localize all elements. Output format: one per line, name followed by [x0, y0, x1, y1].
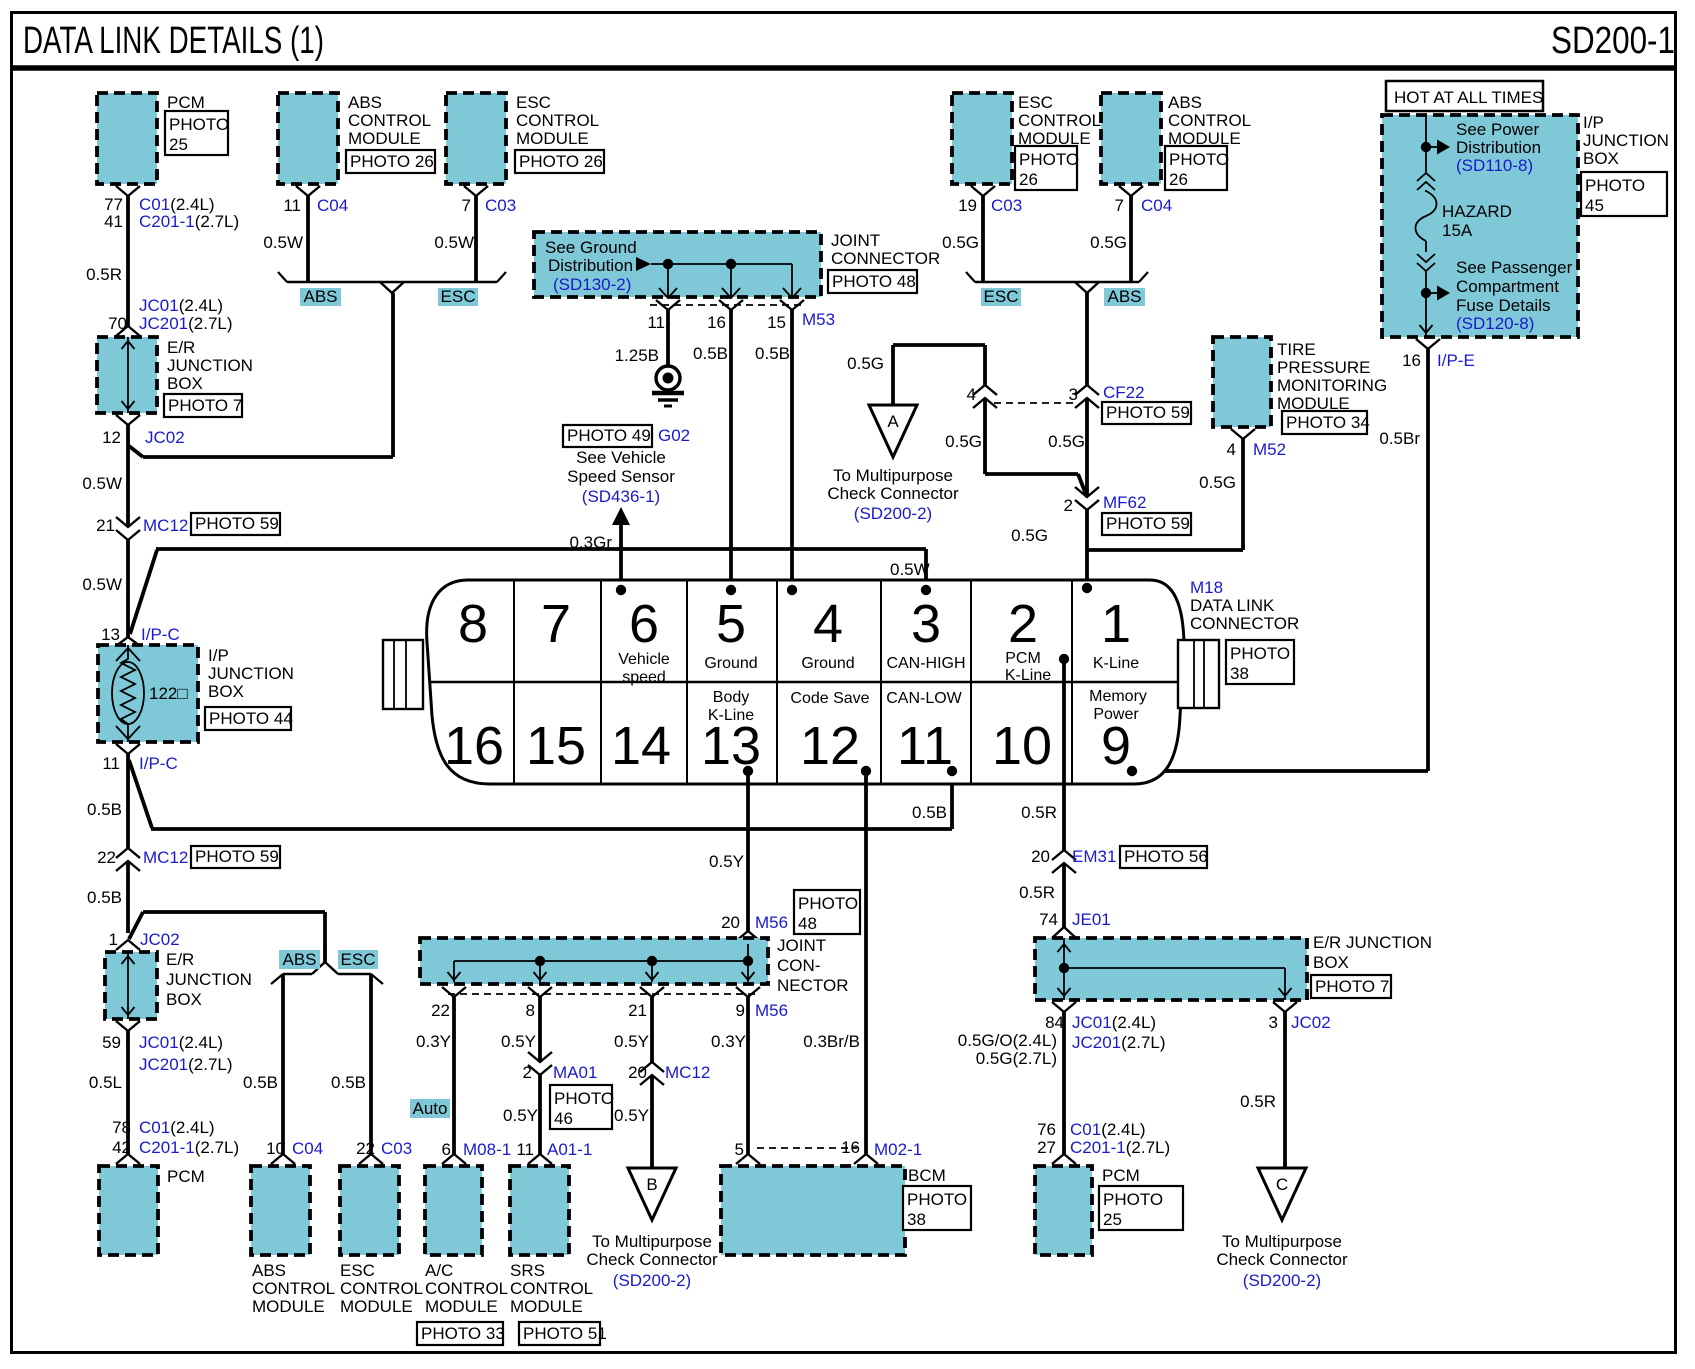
svg-text:76: 76: [1037, 1120, 1056, 1139]
svg-text:45: 45: [1585, 196, 1604, 215]
svg-text:To Multipurpose: To Multipurpose: [1222, 1232, 1342, 1251]
svg-text:(SD110-8): (SD110-8): [1456, 156, 1533, 175]
svg-text:PHOTO 56: PHOTO 56: [1124, 847, 1208, 866]
svg-text:JC02: JC02: [140, 930, 180, 949]
svg-text:78: 78: [112, 1118, 131, 1137]
module SRS control module: [510, 1166, 569, 1255]
svg-text:C201-1(2.7L): C201-1(2.7L): [139, 212, 239, 231]
svg-text:Code Save: Code Save: [790, 690, 869, 707]
svg-text:Distribution: Distribution: [1456, 138, 1541, 157]
wire 0.5Y DLC pin 13 to M56: [746, 771, 750, 931]
pin 84 JC01/JC201 connector at E/R box exit: [1052, 1002, 1076, 1012]
svg-text:To Multipurpose: To Multipurpose: [833, 466, 953, 485]
wire 0.5G ABS right: [1129, 196, 1133, 282]
wire 0.3Y M56 to A/C module: [452, 997, 456, 1154]
svg-text:PHOTO 59: PHOTO 59: [195, 847, 279, 866]
svg-text:C03: C03: [485, 196, 516, 215]
data link connector M18 outline: [427, 580, 1184, 784]
pin 3 JC02 connector at E/R box exit right: [1273, 1002, 1297, 1012]
svg-text:Check Connector: Check Connector: [1216, 1250, 1348, 1269]
svg-text:22: 22: [356, 1139, 375, 1158]
wire 0.3Gr DLC pin 6 to speed sensor: [619, 524, 623, 588]
svg-text:PHOTO: PHOTO: [1019, 150, 1079, 169]
svg-text:CONTROL: CONTROL: [1168, 111, 1251, 130]
svg-text:0.5B: 0.5B: [331, 1073, 366, 1092]
svg-text:C04: C04: [317, 196, 348, 215]
pin 11 A01-1 connector at SRS module: [528, 1154, 552, 1164]
module ESC control module top-right: [952, 93, 1012, 184]
svg-text:2: 2: [1064, 496, 1073, 515]
svg-text:(SD200-2): (SD200-2): [854, 504, 932, 523]
DLC left tab: [383, 640, 423, 709]
pin 22 C03 connector at lower ESC module: [359, 1154, 383, 1164]
DLC pin 2 node: [1059, 654, 1069, 664]
junction dot M56 bus 3: [743, 956, 753, 966]
DLC pin 1 node: [1082, 583, 1092, 593]
wire 0.5G CF22 pin 3 to MF62: [1085, 398, 1089, 497]
wire 0.3Br/B DLC pin 12 to BCM pin 16: [864, 771, 868, 1154]
ground symbol G02: [656, 366, 680, 390]
svg-text:26: 26: [1019, 170, 1038, 189]
wire 0.5Y M56 to MA01: [538, 997, 542, 1062]
junction dot M56 bus 1: [535, 956, 545, 966]
svg-text:Speed Sensor: Speed Sensor: [567, 467, 675, 486]
svg-text:0.3Br/B: 0.3Br/B: [803, 1032, 860, 1051]
svg-text:MODULE: MODULE: [510, 1297, 583, 1316]
svg-text:JUNCTION: JUNCTION: [1583, 131, 1669, 150]
svg-text:0.5W: 0.5W: [890, 560, 930, 579]
svg-text:ESC: ESC: [1018, 93, 1053, 112]
svg-text:0.5G: 0.5G: [945, 432, 982, 451]
svg-text:M08-1: M08-1: [463, 1140, 511, 1159]
svg-text:C03: C03: [381, 1139, 412, 1158]
svg-text:2: 2: [1008, 594, 1038, 654]
svg-text:10: 10: [992, 716, 1052, 776]
svg-text:CONTROL: CONTROL: [340, 1279, 423, 1298]
I/P junction box with resistor: [98, 645, 198, 742]
svg-text:Auto: Auto: [413, 1099, 448, 1118]
svg-text:JUNCTION: JUNCTION: [167, 356, 253, 375]
node ABS label lower: [279, 950, 320, 969]
svg-text:26: 26: [1169, 170, 1188, 189]
svg-text:0.5G: 0.5G: [942, 233, 979, 252]
svg-text:speed: speed: [622, 669, 666, 686]
in-line connector MF62 pin 2: [1075, 487, 1099, 497]
wire 0.5G/O to PCM: [1062, 1012, 1066, 1154]
svg-text:PCM: PCM: [167, 1167, 205, 1186]
svg-text:7: 7: [1115, 196, 1124, 215]
svg-text:HOT AT ALL TIMES: HOT AT ALL TIMES: [1394, 88, 1543, 107]
M56 bus drops: [453, 961, 455, 982]
svg-text:CAN-HIGH: CAN-HIGH: [886, 655, 965, 672]
wire 0.5W ABS to bus: [306, 196, 310, 282]
svg-text:0.5W: 0.5W: [82, 474, 122, 493]
DLC pin 11 node: [947, 766, 957, 776]
node ABS label right: [1104, 288, 1145, 306]
svg-text:Check Connector: Check Connector: [586, 1250, 718, 1269]
svg-text:38: 38: [1230, 664, 1249, 683]
svg-text:PHOTO: PHOTO: [1169, 150, 1229, 169]
svg-text:ESC: ESC: [984, 287, 1019, 306]
wire 0.5B to lower ABS module: [281, 974, 285, 1154]
svg-text:CONNECTOR: CONNECTOR: [1190, 614, 1299, 633]
pin 6 M08-1 connector at A/C module: [442, 1154, 466, 1164]
wire 0.5Br I/P-E to DLC pin 9: [1426, 349, 1430, 771]
svg-text:Fuse Details: Fuse Details: [1456, 296, 1550, 315]
svg-text:MODULE: MODULE: [425, 1297, 498, 1316]
wire branch CAN-LOW to DLC pin 11: [129, 760, 152, 828]
svg-text:27: 27: [1037, 1138, 1056, 1157]
wire 0.5G M52 to K-line: [1241, 439, 1245, 550]
svg-text:EM31: EM31: [1072, 847, 1116, 866]
svg-text:ABS: ABS: [282, 950, 316, 969]
svg-text:JC01(2.4L): JC01(2.4L): [139, 296, 223, 315]
svg-text:0.5Br: 0.5Br: [1379, 429, 1420, 448]
svg-text:B: B: [646, 1175, 657, 1194]
junction dot inside E/R box: [1059, 963, 1069, 973]
in-line connector MC12 pin 22: [116, 848, 140, 858]
svg-text:Power: Power: [1093, 706, 1139, 723]
pin 16 I/P-E connector at I/P junction box exit: [1416, 339, 1440, 349]
pin 16 M02-1 connector at BCM: [854, 1154, 878, 1164]
node ESC label right: [981, 288, 1021, 306]
svg-text:PHOTO 59: PHOTO 59: [195, 514, 279, 533]
svg-text:I/P-E: I/P-E: [1437, 351, 1475, 370]
svg-text:I/P-C: I/P-C: [141, 625, 180, 644]
svg-text:0.5B: 0.5B: [912, 803, 947, 822]
joint connector ground distribution box: [534, 232, 821, 297]
svg-text:C04: C04: [1141, 196, 1172, 215]
E/R junction box bottom-right: [1035, 938, 1307, 1000]
svg-text:PHOTO 59: PHOTO 59: [1106, 403, 1190, 422]
module PCM bottom-left: [99, 1166, 158, 1255]
svg-text:14: 14: [611, 716, 671, 776]
DLC grid lines: [513, 580, 515, 784]
svg-text:PHOTO 26: PHOTO 26: [350, 152, 434, 171]
wire branch CAN-HIGH to DLC pin 3: [130, 550, 157, 634]
svg-text:JE01: JE01: [1072, 910, 1111, 929]
pin 74 JE01 connector at E/R junction box: [1052, 927, 1076, 938]
module ESC control module top-left: [446, 93, 506, 184]
svg-text:C03: C03: [991, 196, 1022, 215]
svg-text:0.5L: 0.5L: [89, 1073, 122, 1092]
bus wire joining right ESC and ABS: [975, 281, 1139, 283]
svg-text:0.5Y: 0.5Y: [614, 1032, 649, 1051]
svg-text:Memory: Memory: [1089, 688, 1147, 705]
svg-text:PHOTO: PHOTO: [1103, 1190, 1163, 1209]
svg-text:M52: M52: [1253, 440, 1286, 459]
pin 11 M53: [656, 300, 680, 310]
DLC pin 5 node: [726, 585, 736, 595]
svg-text:MODULE: MODULE: [252, 1297, 325, 1316]
svg-text:22: 22: [431, 1001, 450, 1020]
svg-text:G02: G02: [658, 426, 690, 445]
DLC pin 9 node: [1127, 766, 1137, 776]
svg-text:ABS: ABS: [252, 1261, 286, 1280]
svg-text:(SD436-1): (SD436-1): [582, 487, 660, 506]
svg-text:0.5Y: 0.5Y: [503, 1106, 538, 1125]
svg-text:0.3Y: 0.3Y: [416, 1032, 451, 1051]
off-page connector triangle C: [1258, 1168, 1306, 1220]
svg-text:JUNCTION: JUNCTION: [166, 970, 252, 989]
off-page connector triangle B: [628, 1168, 676, 1220]
svg-text:DATA LINK: DATA LINK: [1190, 596, 1275, 615]
svg-text:84: 84: [1045, 1013, 1064, 1032]
svg-text:JC01(2.4L): JC01(2.4L): [139, 1033, 223, 1052]
svg-text:C: C: [1276, 1175, 1288, 1194]
pin 10 C04 connector at lower ABS module: [271, 1154, 295, 1164]
DLC right tab: [1178, 640, 1219, 708]
svg-text:PCM: PCM: [1005, 650, 1041, 667]
wire 0.5W MC12 to I/P-C: [126, 540, 130, 637]
svg-text:Ground: Ground: [801, 655, 854, 672]
svg-text:ESC: ESC: [516, 93, 551, 112]
svg-text:ABS: ABS: [303, 287, 337, 306]
module PCM bottom-right: [1035, 1166, 1092, 1255]
svg-text:2: 2: [523, 1063, 532, 1082]
junction split to ABS and ESC wires: [312, 962, 338, 974]
svg-text:(SD200-2): (SD200-2): [1243, 1271, 1321, 1290]
bus wire joining ABS and ESC: [287, 281, 497, 283]
svg-text:4: 4: [1227, 440, 1236, 459]
svg-text:M18: M18: [1190, 578, 1223, 597]
pin 7 C03 connector at ESC module: [464, 186, 488, 196]
svg-text:Vehicle: Vehicle: [618, 651, 670, 668]
pin 77/41 C01/C201-1 connector at PCM: [116, 186, 140, 196]
svg-text:CONTROL: CONTROL: [348, 111, 431, 130]
svg-text:70: 70: [108, 314, 127, 333]
wire 0.5Y MC12 to triangle B: [650, 1075, 654, 1168]
joint connector box bottom: [420, 938, 768, 984]
wire 0.5B MC12 to JC02: [126, 861, 130, 933]
svg-text:42: 42: [112, 1138, 131, 1157]
svg-text:PHOTO: PHOTO: [907, 1190, 967, 1209]
title separator bar: [11, 65, 1676, 71]
svg-text:0.5R: 0.5R: [1019, 883, 1055, 902]
svg-text:15: 15: [526, 716, 586, 776]
svg-text:PHOTO: PHOTO: [1585, 176, 1645, 195]
pin 59 JC01/JC201 connector at lower E/R junction box exit: [116, 1021, 140, 1031]
svg-text:NECTOR: NECTOR: [777, 976, 848, 995]
wire 0.5W ESC to bus: [474, 196, 478, 282]
svg-text:(SD130-2): (SD130-2): [553, 275, 631, 294]
svg-text:CON-: CON-: [777, 956, 820, 975]
svg-text:MODULE: MODULE: [340, 1297, 413, 1316]
wire 0.5R PCM to E/R junction box: [126, 196, 130, 326]
svg-text:0.5B: 0.5B: [87, 800, 122, 819]
svg-text:See Power: See Power: [1456, 120, 1539, 139]
pin 21 M56: [640, 987, 664, 997]
wire branch JC02 to ABS/ESC merge: [129, 446, 143, 457]
svg-text:JC201(2.7L): JC201(2.7L): [139, 314, 233, 333]
connector M56 boundary dashed line: [448, 993, 755, 995]
arrow into ground bus: [636, 257, 651, 271]
module A/C control module: [425, 1166, 482, 1255]
junction dot ground bus 1: [663, 259, 673, 269]
svg-text:0.5R: 0.5R: [1240, 1092, 1276, 1111]
svg-text:0.5G/O(2.4L): 0.5G/O(2.4L): [958, 1031, 1057, 1050]
svg-text:ESC: ESC: [441, 287, 476, 306]
svg-text:9: 9: [736, 1001, 745, 1020]
svg-text:BOX: BOX: [1583, 149, 1619, 168]
svg-text:1: 1: [1101, 594, 1131, 654]
svg-text:M56: M56: [755, 1001, 788, 1020]
svg-text:(SD120-8): (SD120-8): [1456, 314, 1534, 333]
svg-text:11: 11: [102, 754, 120, 773]
svg-text:25: 25: [1103, 1210, 1122, 1229]
in-line connector M56 pin 20: [736, 931, 760, 941]
label HOT AT ALL TIMES: [1386, 81, 1543, 111]
svg-text:CONTROL: CONTROL: [425, 1279, 508, 1298]
in-line connector MC12 pin 21: [116, 517, 140, 527]
svg-text:20: 20: [628, 1063, 647, 1082]
svg-text:PHOTO 44: PHOTO 44: [209, 709, 293, 728]
svg-text:CONTROL: CONTROL: [510, 1279, 593, 1298]
svg-text:0.5R: 0.5R: [86, 265, 122, 284]
svg-text:PHOTO 59: PHOTO 59: [1106, 514, 1190, 533]
in-line connector CF22 pin 3: [1075, 385, 1099, 395]
svg-text:0.5B: 0.5B: [693, 344, 728, 363]
svg-text:41: 41: [104, 212, 123, 231]
svg-text:Ground: Ground: [704, 655, 757, 672]
svg-text:PHOTO 26: PHOTO 26: [519, 152, 603, 171]
module ESC control module bottom: [340, 1166, 399, 1255]
wire 0.5B I/P-C to MC12: [126, 754, 130, 848]
svg-text:7: 7: [462, 196, 471, 215]
svg-text:0.5B: 0.5B: [243, 1073, 278, 1092]
svg-text:I/P: I/P: [208, 646, 229, 665]
in-line connector MC12 pin 20: [640, 1062, 664, 1072]
wire 0.5G CF22 pin 4 to MF62: [983, 398, 987, 474]
pin 11 C04 connector at ABS module: [296, 186, 320, 196]
arrow to vehicle speed sensor: [612, 507, 630, 525]
DLC pin 13 node: [743, 766, 753, 776]
svg-text:12: 12: [800, 716, 860, 776]
pin 78/42 C01/C201-1 connector at lower PCM: [116, 1154, 140, 1164]
svg-text:ABS: ABS: [1168, 93, 1202, 112]
resistor 122 ohm inside I/P junction box: [112, 662, 144, 724]
svg-text:PHOTO: PHOTO: [798, 894, 858, 913]
svg-text:CONTROL: CONTROL: [252, 1279, 335, 1298]
svg-text:11: 11: [897, 716, 953, 776]
svg-text:SD200-1: SD200-1: [1551, 20, 1675, 62]
svg-text:Body: Body: [713, 689, 749, 706]
in-line connector CF22 pin 4: [973, 385, 997, 395]
DLC pin 4 node: [787, 585, 797, 595]
svg-text:0.5G: 0.5G: [1090, 233, 1127, 252]
svg-text:PHOTO 7: PHOTO 7: [168, 396, 242, 415]
svg-text:See Vehicle: See Vehicle: [576, 448, 666, 467]
svg-text:E/R JUNCTION: E/R JUNCTION: [1313, 933, 1432, 952]
svg-text:PHOTO 48: PHOTO 48: [832, 272, 916, 291]
svg-text:JC201(2.7L): JC201(2.7L): [139, 1055, 233, 1074]
svg-text:CF22: CF22: [1103, 383, 1145, 402]
pin 5 connector at BCM: [736, 1154, 760, 1164]
pin 7 C04 connector at ABS module right: [1119, 186, 1143, 196]
svg-text:3: 3: [911, 594, 941, 654]
internal feed wire: [1425, 115, 1427, 172]
svg-text:0.5Y: 0.5Y: [501, 1032, 536, 1051]
wire 0.5R JC02 to triangle C: [1283, 1012, 1287, 1168]
svg-text:HAZARD: HAZARD: [1442, 202, 1512, 221]
DLC pin 12 node: [861, 766, 871, 776]
svg-text:MONITORING: MONITORING: [1277, 376, 1387, 395]
svg-text:20: 20: [721, 913, 740, 932]
svg-text:74: 74: [1039, 910, 1058, 929]
wire 0.5G MF62 to DLC pin 1: [1085, 510, 1089, 588]
svg-text:See Passenger: See Passenger: [1456, 258, 1573, 277]
svg-text:K-Line: K-Line: [1005, 667, 1051, 684]
svg-text:38: 38: [907, 1210, 926, 1229]
wire 0.5Y M56 to MC12: [650, 997, 654, 1062]
svg-text:13: 13: [101, 625, 120, 644]
DLC pin 3 node: [921, 585, 931, 595]
svg-text:PHOTO: PHOTO: [1230, 644, 1290, 663]
svg-text:BOX: BOX: [1313, 953, 1349, 972]
svg-text:0.5G(2.7L): 0.5G(2.7L): [976, 1049, 1057, 1068]
svg-text:19: 19: [958, 196, 977, 215]
wire merge to CF22: [1085, 293, 1089, 385]
svg-text:A: A: [887, 412, 899, 431]
svg-text:MODULE: MODULE: [516, 129, 589, 148]
node Auto label: [410, 1099, 450, 1118]
svg-text:46: 46: [554, 1109, 573, 1128]
pin 19 C03 connector at ESC module right: [971, 186, 995, 196]
svg-text:ESC: ESC: [341, 950, 376, 969]
svg-text:A/C: A/C: [425, 1261, 453, 1280]
I/P junction box top-right: [1382, 115, 1578, 337]
module PCM top-left: [97, 93, 157, 184]
svg-text:0.3Gr: 0.3Gr: [569, 533, 612, 552]
svg-text:11: 11: [283, 196, 301, 215]
svg-text:C01(2.4L): C01(2.4L): [139, 1118, 215, 1137]
svg-text:21: 21: [628, 1001, 647, 1020]
svg-text:11: 11: [516, 1140, 534, 1159]
connector M02-1 boundary dashed line: [757, 1147, 857, 1149]
pin 4 M52 connector at TPMS: [1231, 429, 1255, 439]
svg-text:8: 8: [526, 1001, 535, 1020]
svg-text:CONTROL: CONTROL: [1018, 111, 1101, 130]
wire 0.5Y MA01 to SRS module: [538, 1075, 542, 1154]
svg-text:0.5W: 0.5W: [82, 575, 122, 594]
svg-text:15: 15: [767, 313, 786, 332]
svg-text:M53: M53: [802, 310, 835, 329]
off-page connector triangle A: [869, 405, 917, 457]
svg-text:0.5B: 0.5B: [755, 344, 790, 363]
svg-text:MC12: MC12: [665, 1063, 710, 1082]
svg-text:0.5W: 0.5W: [263, 233, 303, 252]
svg-text:DATA LINK DETAILS (1): DATA LINK DETAILS (1): [23, 20, 324, 62]
DLC pin 6 node: [616, 585, 626, 595]
module ABS control module top-left: [278, 93, 338, 184]
svg-text:PHOTO 33: PHOTO 33: [421, 1324, 505, 1343]
svg-text:E/R: E/R: [167, 338, 195, 357]
pin 16 M53: [719, 300, 743, 310]
svg-text:0.5W: 0.5W: [434, 233, 474, 252]
svg-text:5: 5: [735, 1140, 744, 1159]
svg-text:JC02: JC02: [145, 428, 185, 447]
svg-text:22: 22: [97, 848, 116, 867]
svg-text:122□: 122□: [149, 684, 188, 703]
svg-text:4: 4: [967, 385, 976, 404]
pin 15 M53: [780, 300, 804, 310]
svg-text:48: 48: [798, 914, 817, 933]
pin 76/27 C01/C201-1 connector at PCM right: [1052, 1154, 1076, 1164]
svg-text:JUNCTION: JUNCTION: [208, 664, 294, 683]
svg-text:I/P: I/P: [1583, 113, 1604, 132]
junction dot ground bus 2: [726, 259, 736, 269]
svg-text:CONTROL: CONTROL: [516, 111, 599, 130]
